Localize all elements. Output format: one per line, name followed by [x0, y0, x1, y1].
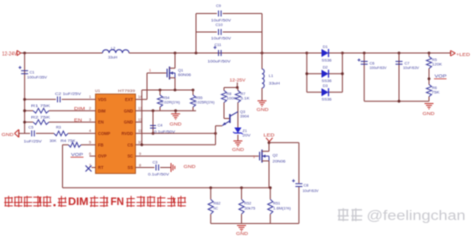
- svg-text:C5: C5: [28, 125, 33, 130]
- svg-text:GND: GND: [257, 107, 269, 112]
- svg-text:0.1uF/50V: 0.1uF/50V: [148, 173, 170, 177]
- svg-text:33uH: 33uH: [108, 55, 117, 60]
- svg-text:20N06: 20N06: [273, 158, 286, 163]
- svg-text:R52: R52: [244, 202, 251, 206]
- svg-text:D2: D2: [323, 65, 328, 70]
- svg-text:100uF/50V: 100uF/50V: [208, 58, 231, 63]
- svg-text:DIM: DIM: [98, 108, 106, 113]
- svg-text:1uF/25V: 1uF/25V: [24, 139, 42, 144]
- svg-text:D1: D1: [323, 44, 328, 49]
- svg-text:20V: 20V: [243, 134, 252, 138]
- svg-text:FB: FB: [98, 142, 104, 147]
- svg-text:0.025R(1%): 0.025R(1%): [195, 101, 215, 105]
- svg-text:9: 9: [139, 152, 141, 156]
- svg-text:R2 75K: R2 75K: [31, 114, 51, 119]
- svg-text:LED: LED: [264, 133, 275, 138]
- svg-text:R62: R62: [214, 202, 221, 206]
- svg-text:33uH: 33uH: [269, 81, 280, 86]
- svg-text:5: 5: [89, 141, 91, 145]
- svg-text:VOP: VOP: [71, 152, 83, 157]
- svg-text:GND: GND: [184, 164, 196, 169]
- svg-text:R6: R6: [432, 86, 437, 90]
- svg-text:10uF/63V: 10uF/63V: [403, 66, 420, 70]
- svg-text:C9: C9: [216, 3, 221, 8]
- svg-text:Z1: Z1: [243, 129, 247, 133]
- svg-text:30K: 30K: [50, 138, 57, 143]
- svg-text:0.02R(1%): 0.02R(1%): [161, 101, 180, 105]
- svg-text:DIM: DIM: [74, 106, 86, 111]
- svg-text:10uF/63V: 10uF/63V: [303, 189, 320, 193]
- svg-text:100uF/63V: 100uF/63V: [370, 66, 388, 70]
- svg-text:1: 1: [149, 69, 151, 73]
- svg-text:RT: RT: [98, 165, 104, 170]
- svg-text:30k75: 30k75: [244, 206, 255, 210]
- svg-text:L2: L2: [111, 45, 115, 50]
- svg-text:GND: GND: [236, 231, 248, 236]
- svg-text:HT7939: HT7939: [118, 88, 136, 93]
- svg-text:100K: 100K: [227, 96, 238, 100]
- svg-text:Q3: Q3: [240, 110, 245, 114]
- svg-text:1: 1: [89, 95, 91, 99]
- svg-text:RVDD: RVDD: [121, 131, 133, 136]
- svg-text:GND: GND: [124, 120, 133, 125]
- svg-text:EN: EN: [74, 118, 82, 123]
- svg-text:R8: R8: [227, 92, 232, 96]
- svg-text:3: 3: [89, 118, 91, 122]
- svg-text:R1 75K: R1 75K: [31, 103, 51, 108]
- svg-text:GND: GND: [2, 132, 14, 137]
- svg-text:U1: U1: [95, 88, 101, 93]
- svg-text:C8: C8: [304, 183, 309, 188]
- svg-text:R5: R5: [432, 58, 437, 62]
- svg-text:R7: R7: [241, 92, 246, 96]
- svg-text:3904: 3904: [240, 115, 249, 119]
- svg-text:C4: C4: [158, 122, 164, 127]
- svg-text:12-25V: 12-25V: [230, 78, 246, 83]
- svg-text:10uF/50V: 10uF/50V: [211, 35, 231, 40]
- svg-text:12-24V: 12-24V: [2, 52, 18, 58]
- svg-text:OVP: OVP: [98, 154, 107, 159]
- svg-text:6: 6: [89, 152, 91, 156]
- svg-text:VDS: VDS: [98, 97, 107, 102]
- svg-text:C11: C11: [215, 42, 222, 47]
- svg-text:EXT: EXT: [125, 97, 133, 102]
- svg-text:NC: NC: [214, 206, 219, 210]
- svg-text:R3: R3: [56, 125, 61, 130]
- svg-text:GND: GND: [232, 147, 244, 152]
- svg-text:GND: GND: [423, 111, 435, 116]
- svg-text:4: 4: [89, 129, 91, 133]
- svg-text:Q2: Q2: [273, 152, 278, 157]
- svg-text:SS36: SS36: [322, 57, 332, 62]
- svg-text:R54: R54: [163, 96, 170, 100]
- svg-text:1.6M(1%): 1.6M(1%): [273, 206, 291, 210]
- svg-text:C3: C3: [153, 159, 158, 164]
- svg-text:C2 1uF/25V: C2 1uF/25V: [55, 91, 82, 96]
- svg-text:+LED: +LED: [456, 52, 470, 57]
- svg-text:75K: 75K: [432, 91, 441, 95]
- svg-text:CS: CS: [127, 142, 133, 147]
- svg-text:@feelingchan: @feelingchan: [367, 208, 466, 224]
- svg-text:2: 2: [89, 107, 91, 111]
- svg-text:8: 8: [139, 163, 141, 167]
- svg-text:5.1K: 5.1K: [241, 96, 251, 100]
- svg-text:GND: GND: [124, 108, 133, 113]
- svg-text:1: 1: [253, 155, 255, 159]
- svg-text:SS: SS: [128, 165, 134, 170]
- svg-text:120K: 120K: [432, 63, 443, 67]
- svg-text:R51: R51: [273, 202, 280, 206]
- svg-text:R55: R55: [196, 96, 203, 100]
- svg-text:D3: D3: [323, 83, 328, 88]
- svg-text:60N06: 60N06: [178, 72, 191, 77]
- svg-text:SC: SC: [127, 154, 133, 159]
- svg-text:C7: C7: [405, 60, 410, 65]
- svg-text:R4 75K: R4 75K: [61, 138, 76, 143]
- svg-text:GND: GND: [170, 122, 182, 127]
- svg-text:100uF/35V: 100uF/35V: [27, 75, 47, 80]
- svg-text:VOP: VOP: [435, 73, 447, 78]
- svg-text:L1: L1: [269, 73, 273, 78]
- svg-text:C10: C10: [216, 22, 224, 27]
- svg-text:EN: EN: [98, 120, 104, 125]
- svg-text:DIM: DIM: [68, 196, 89, 208]
- svg-text:FN: FN: [111, 196, 125, 208]
- svg-text:SS36: SS36: [322, 97, 332, 102]
- svg-text:COMP: COMP: [98, 131, 111, 136]
